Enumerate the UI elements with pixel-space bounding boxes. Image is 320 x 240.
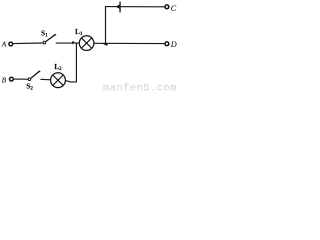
wire S1 to junction xyxy=(56,42,73,44)
svg-text:B: B xyxy=(2,76,7,84)
lamp L2 xyxy=(51,73,66,88)
switch S2 xyxy=(28,71,40,80)
junction dot at node F xyxy=(103,43,107,46)
svg-text:manfen5.com: manfen5.com xyxy=(103,83,177,95)
lamp L1 xyxy=(79,36,94,51)
wire A to S1 xyxy=(13,42,43,45)
wire vertical junction E down xyxy=(75,43,77,82)
terminal C xyxy=(165,5,169,9)
terminal B xyxy=(10,77,14,81)
svg-text:D: D xyxy=(170,40,177,49)
terminal A xyxy=(9,42,13,46)
svg-text:A: A xyxy=(1,39,7,48)
wire L1 to D xyxy=(94,42,165,44)
wire junction to L1 xyxy=(75,42,80,44)
switch S1 xyxy=(43,35,56,44)
diode V1 xyxy=(116,2,121,13)
wire vertical junction F up xyxy=(105,7,107,44)
svg-text:C: C xyxy=(171,4,177,13)
junction arrow at node E xyxy=(72,41,75,45)
wire B to S2 xyxy=(14,78,28,80)
wire top horizontal to C xyxy=(105,6,164,8)
wire L2 to corner xyxy=(65,80,77,82)
wire S2 to L2 xyxy=(40,78,51,81)
terminal D xyxy=(165,42,169,46)
